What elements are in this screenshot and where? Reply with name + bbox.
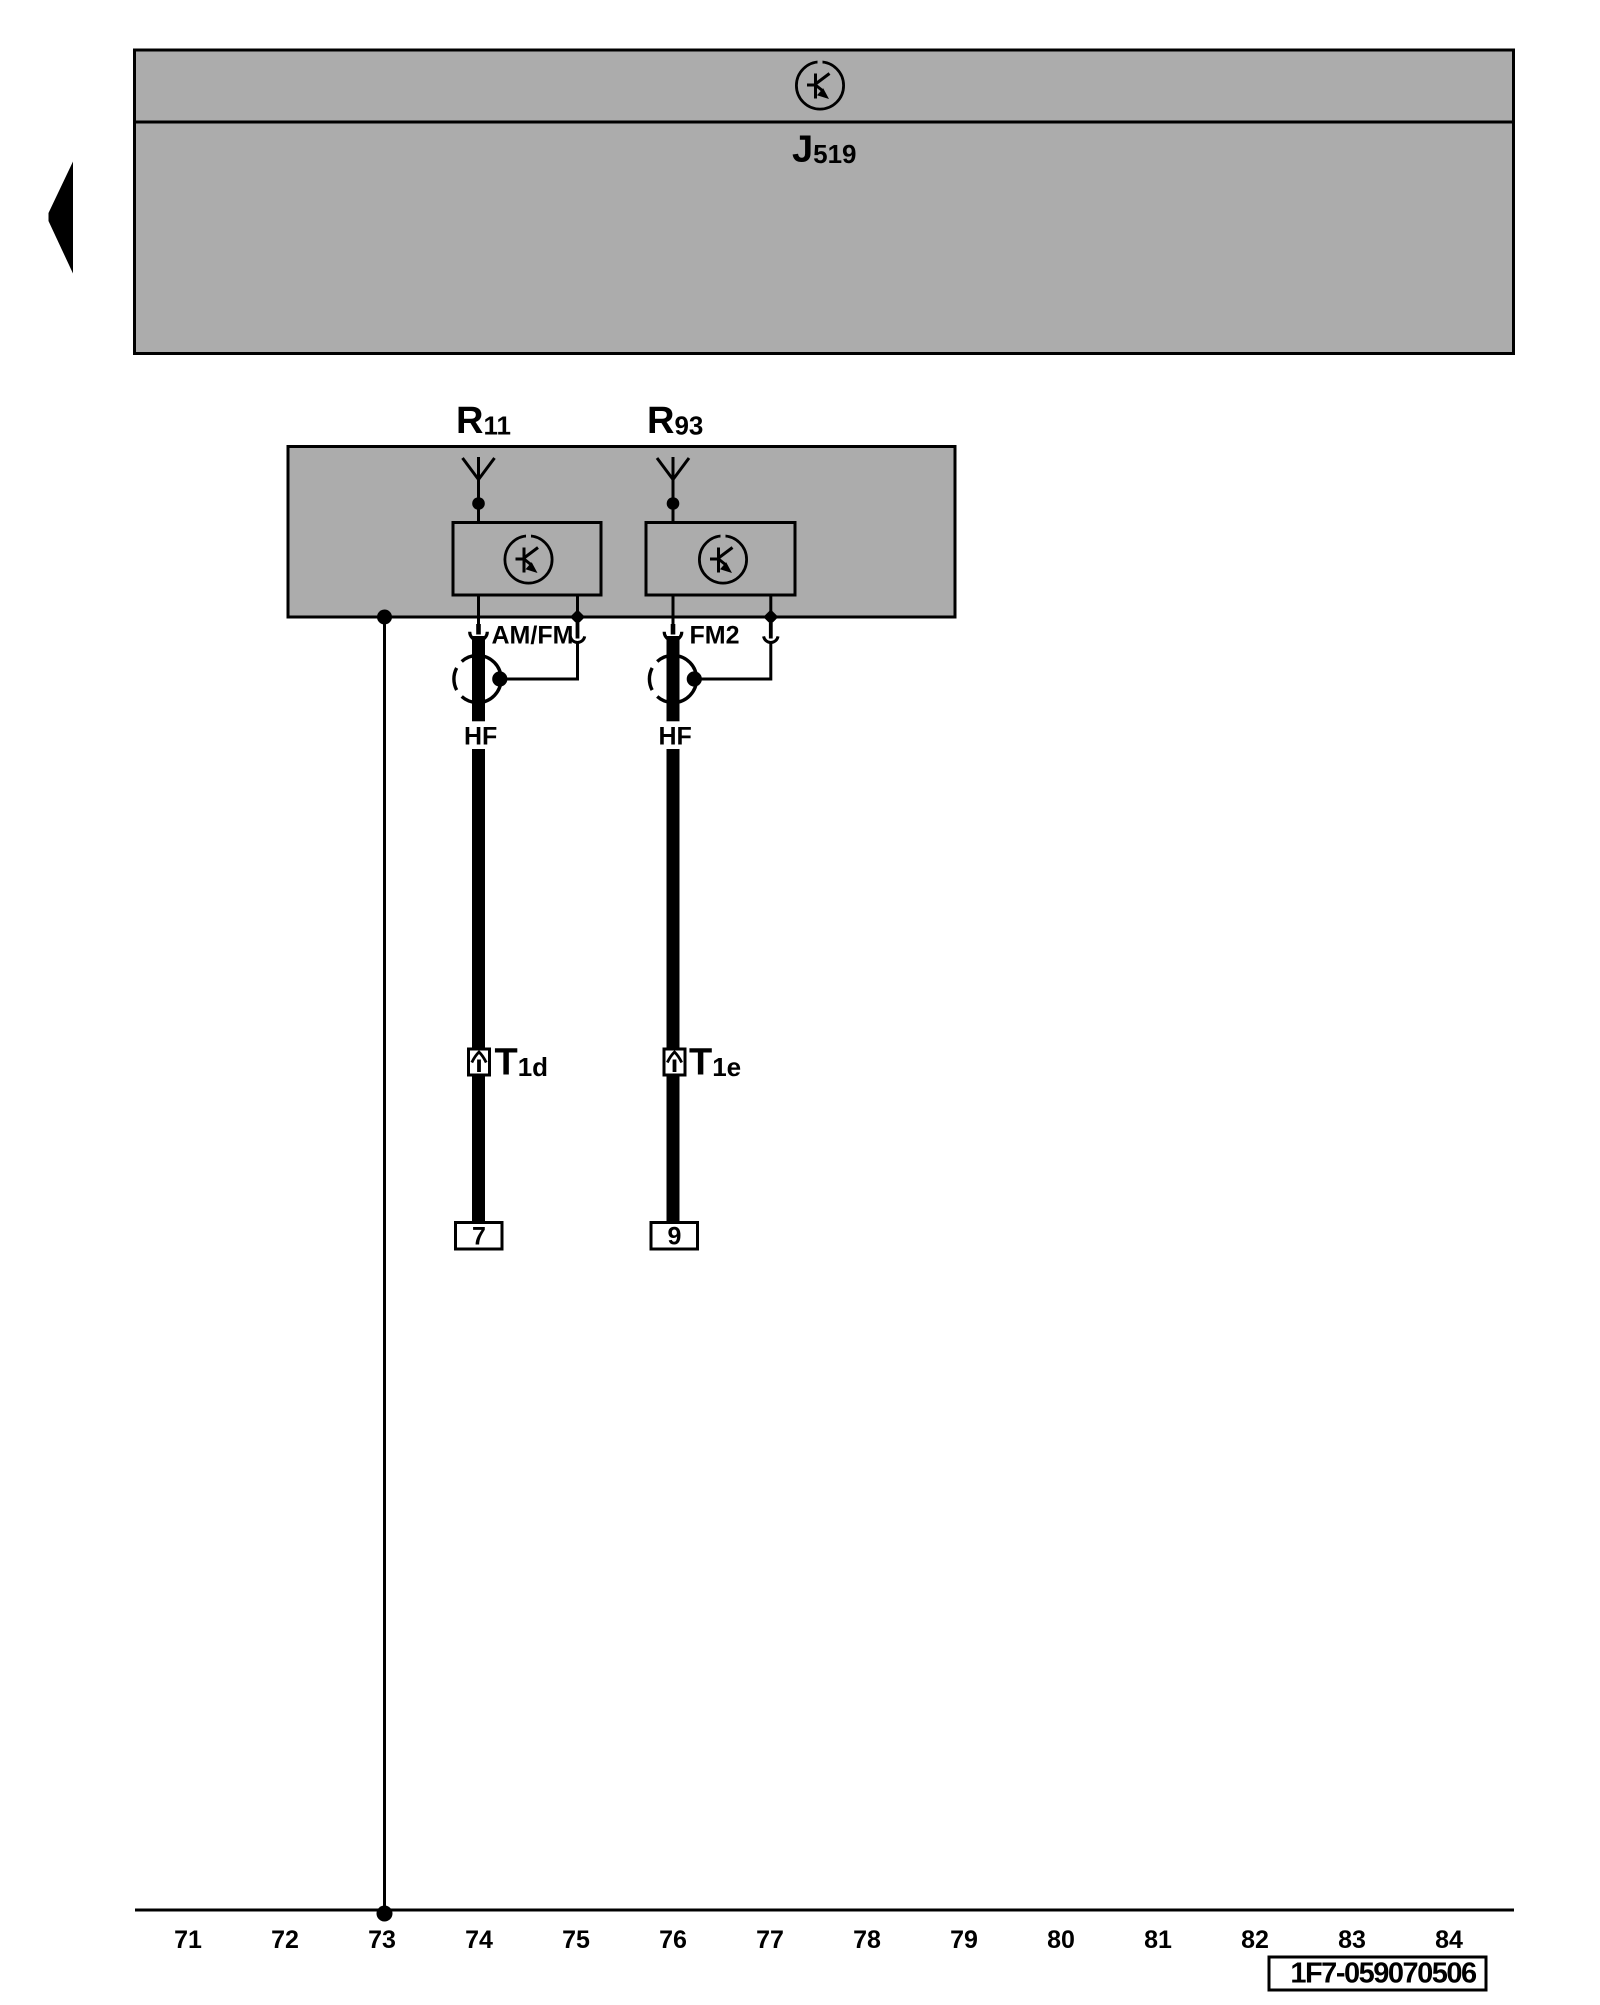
- svg-text:74: 74: [465, 1926, 493, 1954]
- svg-text:81: 81: [1144, 1926, 1172, 1954]
- svg-text:72: 72: [271, 1926, 299, 1954]
- svg-text:77: 77: [756, 1926, 784, 1954]
- coax wire HF upper (R93): [667, 636, 680, 721]
- pin wire R11 right: [576, 595, 579, 626]
- control unit J519 box: [135, 50, 1514, 354]
- svg-text:1F7-059070506: 1F7-059070506: [1290, 1958, 1477, 1990]
- svg-text:82: 82: [1241, 1926, 1269, 1954]
- svg-text:HF: HF: [464, 723, 497, 751]
- shield circle R11: [454, 655, 501, 702]
- coax wire HF lower (R11): [472, 749, 485, 1049]
- svg-text:FM2: FM2: [690, 622, 740, 650]
- shield jumper wire R11: [500, 642, 578, 679]
- svg-text:76: 76: [659, 1926, 687, 1954]
- svg-text:HF: HF: [659, 723, 692, 751]
- electronics symbol R11: [505, 534, 552, 583]
- electronics symbol in J519: [796, 60, 843, 109]
- shield junction dot R11: [492, 671, 507, 686]
- svg-text:80: 80: [1047, 1926, 1075, 1954]
- connector T1d: [469, 1049, 490, 1075]
- connector AM/FM jumper pin: [570, 623, 584, 642]
- svg-text:AM/FM: AM/FM: [492, 622, 574, 650]
- connector FM2 jumper pin: [764, 623, 778, 642]
- pin wire R11 left: [477, 595, 480, 626]
- terminal box 7: [456, 1223, 503, 1251]
- antenna symbol R93: [657, 457, 689, 523]
- connector AM/FM main pin: [470, 624, 488, 641]
- pin wire R93 right: [769, 595, 772, 626]
- junction dot at track 73: [377, 1906, 393, 1922]
- svg-text:84: 84: [1435, 1926, 1463, 1954]
- junction dot on R93 antenna lead: [667, 497, 680, 510]
- shield junction dot R93: [687, 671, 702, 686]
- shield circle R93: [649, 655, 696, 702]
- connector FM2 main pin: [664, 624, 682, 641]
- svg-text:71: 71: [174, 1926, 202, 1954]
- svg-text:83: 83: [1338, 1926, 1366, 1954]
- junction diamond R11 right pin: [570, 610, 585, 625]
- shield jumper wire R93: [694, 642, 771, 679]
- junction dot on module edge (track 73): [377, 610, 392, 625]
- pin wire R93 left: [672, 595, 675, 626]
- svg-text:75: 75: [562, 1926, 590, 1954]
- junction diamond R93 right pin: [763, 610, 778, 625]
- amplifier box R93: [646, 523, 795, 596]
- page arrow marker: [49, 162, 74, 274]
- svg-text:7: 7: [472, 1223, 486, 1251]
- svg-text:79: 79: [950, 1926, 978, 1954]
- connector T1e: [664, 1049, 685, 1075]
- coax wire HF upper (R11): [472, 636, 485, 721]
- electronics symbol R93: [699, 534, 746, 583]
- svg-text:73: 73: [368, 1926, 396, 1954]
- antenna module box: [288, 447, 955, 618]
- diagram code box 1F7-059070506: [1269, 1957, 1486, 1990]
- antenna symbol R11: [463, 457, 495, 523]
- junction dot on R11 antenna lead: [472, 497, 485, 510]
- current track baseline: [135, 1909, 1514, 1912]
- ground wire to track 73: [383, 617, 386, 1910]
- coax wire HF lower (R93): [667, 749, 680, 1049]
- track numbers 71-84: [174, 1926, 1463, 1954]
- svg-text:9: 9: [668, 1223, 682, 1251]
- amplifier box R11: [453, 523, 601, 596]
- terminal box 9: [651, 1223, 698, 1251]
- svg-text:78: 78: [853, 1926, 881, 1954]
